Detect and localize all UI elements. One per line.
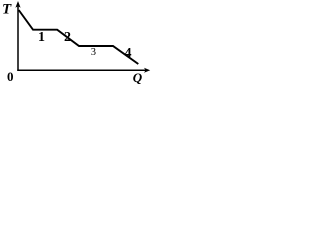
cooling curve: initial drop, plateau 1, drop 2, plateau 3, drop 4 <box>19 10 139 64</box>
svg-text:2: 2 <box>64 30 71 45</box>
T axis (vertical) <box>17 5 19 71</box>
svg-text:4: 4 <box>125 46 132 61</box>
svg-text:0: 0 <box>7 69 14 84</box>
background <box>0 0 152 88</box>
svg-text:3: 3 <box>91 47 96 58</box>
Q axis (horizontal) <box>17 69 147 71</box>
svg-text:1: 1 <box>38 30 45 45</box>
svg-text:T: T <box>2 2 12 18</box>
T axis arrowhead <box>15 1 20 8</box>
svg-text:Q: Q <box>133 70 143 85</box>
Q axis arrowhead <box>144 68 150 73</box>
